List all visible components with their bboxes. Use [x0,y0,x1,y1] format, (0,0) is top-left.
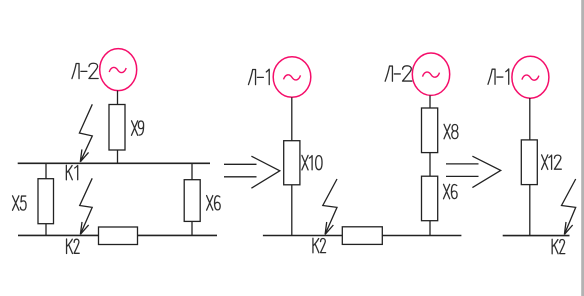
load resistor (horizontal, circuit 2) [342,227,382,245]
label K2 (circuit 3) [552,239,565,254]
wire G3 to X8 [429,95,431,108]
generator G2 Л-1 [273,57,311,98]
window edge grey line [581,0,584,296]
label Л-2 (G1) [72,63,98,78]
wire X5 to bus B2 [45,224,47,236]
generator G2 tilde [284,75,301,80]
label X9 [132,121,144,136]
label Л-1 (G4) [488,69,509,84]
equivalence arrow 2 [446,156,501,187]
wire bus B1 to X5 [45,163,47,178]
bus B4 (circuit 3) [503,235,570,237]
fault K2 lightning bolt (circuit 1) [80,178,93,234]
generator G3 Л-2 [412,53,449,95]
label X6 [207,196,221,211]
fault K1 arrowhead [80,149,88,161]
wire G2 to X10 [291,97,293,140]
label X8 [444,124,458,139]
bus B1 upper (circuit 1) [18,162,210,164]
fault K2 lightning bolt (circuit 2) [323,179,337,234]
generator G4 Л-1 [512,56,549,98]
label Л-2 (G3) [385,66,412,81]
wire X10 to bus B3 [291,185,293,236]
label K2 (circuit 2) [313,238,326,253]
fault K2 arrowhead (circuit 2) [325,222,333,234]
bus B2 lower (circuit 1) [18,234,217,236]
label K2 (circuit 1) [67,239,80,254]
generator G1 tilde [109,67,126,72]
label Л-1 (G2) [248,69,269,84]
wire X6b to bus B3 [429,221,431,236]
fault K1 lightning bolt [79,104,92,162]
reactor X6 [184,180,200,222]
reactor X5 [38,179,54,224]
generator G4 tilde [522,75,539,80]
generator G1 Л-2 [100,49,137,91]
label X12 [542,155,562,170]
fault K2 arrowhead (circuit 1) [80,222,88,234]
wire bus B1 to X6 [191,163,193,179]
reactor X9 [109,105,125,151]
label X10 [302,155,322,170]
reactor X6 (circuit 2) [422,176,438,221]
reactor X10 [284,141,300,185]
fault K2 arrowhead (circuit 3) [564,222,572,234]
reactor X8 [422,108,438,153]
equivalence arrow 1 [224,156,280,188]
wire X12 to bus B4 [529,185,531,236]
reactor X12 [521,140,537,185]
fault K2 lightning bolt (circuit 3) [562,179,576,234]
wire X8 to X6b [429,153,431,177]
bus B3 (circuit 2) [263,235,462,237]
wire G1 to X9 [117,91,119,105]
wire X9 to bus B1 [117,150,119,163]
label K1 [66,165,77,180]
wire G4 to X12 [529,98,531,140]
wire X6 to bus B2 [191,221,193,235]
load resistor (horizontal, circuit 1) [99,227,138,245]
label X6 (circuit 2) [444,184,458,199]
label X5 [13,196,27,211]
generator G3 tilde [423,72,440,77]
